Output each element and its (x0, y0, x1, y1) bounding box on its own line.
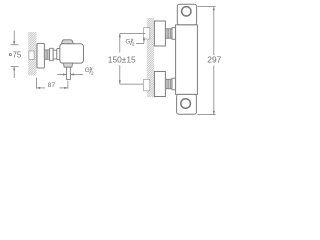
escutcheon plate (side) (37, 43, 44, 68)
dimension square-75 : top arrow (11, 31, 19, 79)
mixer body (60, 44, 84, 63)
dimension 297 : bottom extension line (198, 114, 216, 116)
bar bottom head (177, 94, 197, 114)
svg-text:297: 297 (207, 54, 221, 64)
union nut (50, 48, 54, 60)
G half label (left drawing) arrows at pipe (57, 73, 83, 75)
wall cutout top (144, 28, 150, 39)
outlet pipe (67, 67, 71, 79)
bar top head (177, 4, 196, 25)
dimension 87 : line + arrows (37, 87, 46, 89)
svg-text:2: 2 (91, 70, 94, 76)
escutcheon plate top (154, 21, 165, 46)
dimension 297 : top extension line (198, 7, 216, 115)
svg-text:75: 75 (13, 50, 22, 59)
dimension 150+-15 : top extension line (119, 34, 146, 85)
svg-text:150±15: 150±15 (108, 54, 136, 64)
dimension 87 : right extension line (67, 81, 69, 89)
dimension square-75 : top extension line (11, 44, 19, 46)
dimension 150+-15 : line + arrows (119, 34, 121, 53)
escutcheon plate bottom (154, 72, 165, 97)
knob on top of body (61, 40, 73, 44)
dimension square-75 : square symbol (9, 54, 11, 56)
wall pipe cutout (29, 51, 34, 60)
wall (hatched) (28, 32, 36, 76)
dimension 297 : line + arrows (213, 7, 215, 55)
dimension 87 : left extension line (37, 78, 68, 90)
threaded connector bottom (165, 79, 172, 88)
svg-text:2: 2 (132, 42, 135, 48)
union nut bottom (172, 78, 176, 90)
wall cutout bottom (144, 79, 150, 90)
G half label (right drawing) leader (136, 37, 145, 44)
bar body (middle tube) (176, 25, 198, 95)
dimension square-75 : bottom extension line (11, 66, 19, 68)
svg-text:87: 87 (48, 82, 56, 89)
top outlet circle (182, 7, 191, 16)
outlet collar (63, 63, 72, 67)
body end cap (57, 49, 61, 60)
inlet boss (53, 50, 57, 59)
wall (hatched) (147, 18, 154, 97)
dimension square-75 : bottom arrow (13, 67, 15, 78)
threaded connector top (165, 29, 172, 38)
dimension 150+-15 : bottom extension line (120, 83, 143, 85)
union nut top (172, 28, 176, 40)
threaded stem (44, 50, 49, 59)
bottom outlet circle (181, 99, 191, 109)
